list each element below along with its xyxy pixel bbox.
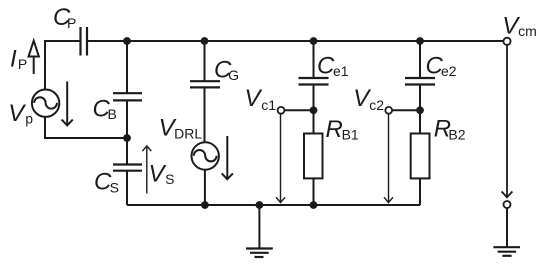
wire Vc1 stub [284,109,313,111]
svg-text:cm: cm [518,23,537,39]
label R_B1 [326,116,359,143]
wire x127 vertical lower [126,171,128,205]
node V_c1 terminal [278,107,285,114]
svg-text:B: B [108,106,117,122]
label R_B2 [434,116,466,143]
svg-text:B1: B1 [342,127,359,143]
wire Vc2 stub [392,109,420,111]
capacitor C_S [113,165,142,171]
wire V_cm drop [506,45,508,197]
wire x127 vertical upper [126,41,128,93]
wire x204 vertical middle [204,87,206,142]
label C_P [53,4,76,31]
wire bottom bus [127,204,420,206]
node top x313.5 [310,37,318,45]
ground 1 [246,249,273,258]
capacitor C_B [113,93,142,100]
svg-text:e1: e1 [333,63,349,79]
svg-text:V: V [245,85,263,112]
node V_cm terminal [503,38,510,45]
node V_c2 terminal [385,107,392,114]
svg-text:V: V [8,100,26,127]
source V_DRL [192,142,219,169]
capacitor C_G [190,81,220,87]
svg-text:DRL: DRL [174,126,202,142]
wire x420 vertical upper [419,41,421,78]
ground 2 [493,247,520,256]
wire x204 vertical lower [204,170,206,205]
arrow V_p direction [62,82,73,126]
node Vc2 junction [416,106,424,114]
wire to ground 2 [506,208,508,247]
wire R_B2 bottom [419,178,421,205]
arrow V_S [142,146,151,194]
resistor R_B1 [304,134,323,179]
arrow V_c1 [276,115,285,203]
label V_cm [502,12,536,39]
node bus x313.5 [310,201,318,209]
svg-text:S: S [110,179,119,195]
capacitor C_e2 [405,78,435,85]
label C_e1 [317,52,349,79]
label C_B [93,96,117,123]
label V_DRL [159,115,203,142]
capacitor C_P [81,27,88,56]
label C_S [94,169,119,196]
label I_P [10,45,27,72]
node V_cm lower terminal [504,201,511,208]
svg-text:p: p [25,110,33,126]
label V_c1 [245,85,277,113]
arrow V_cm head [502,192,513,198]
node left x127 y138 [123,134,131,142]
label V_S [149,160,175,187]
label C_e2 [426,52,457,79]
label C_G [214,56,239,83]
resistor R_B2 [411,134,430,179]
wire x420 vertical middle [419,85,421,134]
svg-text:P: P [18,56,27,72]
svg-text:B2: B2 [448,127,465,143]
wire R_B1 bottom [313,178,315,205]
label V_p [8,100,33,127]
sine inside V_p [34,97,57,108]
sine inside V_DRL [194,150,217,161]
wire x127 vertical middle [126,100,128,164]
svg-text:c2: c2 [369,97,384,113]
wire x204 vertical upper [204,41,206,81]
svg-text:S: S [165,171,174,187]
svg-text:G: G [228,67,239,83]
node top x204 [201,37,209,45]
wire top-left from corner to Cp [45,41,81,90]
node top x127 [123,37,131,45]
node top x420 [416,37,424,45]
node Vc1 junction [310,106,318,114]
wire x313.5 vertical middle [313,85,315,134]
svg-text:V: V [149,160,167,187]
wire to ground 1 [258,205,260,249]
svg-text:R: R [326,116,343,143]
arrow V_DRL direction [222,136,233,179]
arrow V_c2 [384,115,393,203]
svg-text:P: P [67,15,76,31]
wire x313.5 vertical upper [313,41,315,78]
svg-text:e2: e2 [441,63,457,79]
node bus x205 [201,201,209,209]
node bus x259 [256,201,264,209]
wire top bus [87,40,503,42]
source V_p [32,90,59,117]
wire Vp bottom to node [45,117,127,138]
arrow I_P [29,41,39,74]
svg-text:c1: c1 [261,97,276,113]
label V_c2 [353,85,384,113]
capacitor C_e1 [299,78,329,85]
svg-text:I: I [10,45,17,72]
